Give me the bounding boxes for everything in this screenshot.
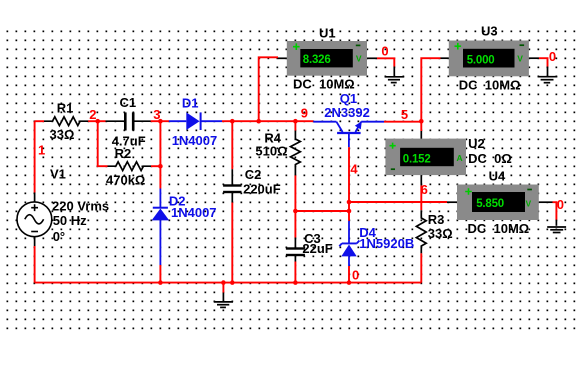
svg-text:6: 6: [421, 182, 428, 197]
svg-text:C1: C1: [120, 95, 137, 110]
svg-text:2: 2: [89, 107, 96, 122]
svg-text:1N4007: 1N4007: [172, 133, 218, 148]
svg-text:DC 10MΩ: DC 10MΩ: [293, 77, 355, 92]
svg-text:A: A: [457, 153, 463, 163]
svg-text:C2: C2: [245, 167, 262, 182]
svg-text:DC 0Ω: DC 0Ω: [468, 151, 512, 166]
svg-text:5: 5: [401, 107, 408, 122]
svg-text:DC 10MΩ: DC 10MΩ: [459, 77, 521, 92]
svg-text:220 Vrms: 220 Vrms: [52, 198, 109, 213]
svg-text:22uF: 22uF: [302, 241, 332, 256]
svg-text:9: 9: [301, 105, 308, 120]
svg-text:0.152: 0.152: [403, 153, 431, 165]
svg-text:R1: R1: [57, 101, 74, 116]
svg-text:8.326: 8.326: [303, 54, 331, 66]
svg-text:R2: R2: [115, 146, 132, 161]
svg-text:1N5920B: 1N5920B: [359, 236, 414, 251]
svg-text:0: 0: [381, 43, 388, 58]
svg-text:0: 0: [352, 267, 359, 282]
svg-text:33Ω: 33Ω: [428, 226, 453, 241]
svg-text:V1: V1: [50, 166, 66, 181]
svg-text:4: 4: [350, 162, 358, 177]
svg-text:220uF: 220uF: [243, 181, 281, 196]
svg-text:R3: R3: [428, 212, 445, 227]
svg-text:33Ω: 33Ω: [50, 127, 75, 142]
svg-text:3: 3: [153, 107, 160, 122]
svg-text:U4: U4: [489, 169, 506, 184]
svg-text:0: 0: [557, 197, 564, 212]
svg-text:V: V: [356, 54, 362, 64]
svg-text:U3: U3: [481, 24, 498, 39]
svg-text:50 Hz: 50 Hz: [53, 213, 87, 228]
svg-text:1N4007: 1N4007: [171, 205, 217, 220]
svg-text:0°: 0°: [53, 229, 65, 244]
svg-text:DC 10MΩ: DC 10MΩ: [468, 221, 530, 236]
svg-text:470kΩ: 470kΩ: [106, 172, 145, 187]
svg-text:5.850: 5.850: [476, 198, 504, 210]
svg-text:5.000: 5.000: [467, 54, 495, 66]
svg-text:2N3392: 2N3392: [324, 105, 370, 120]
svg-text:0: 0: [549, 49, 556, 64]
svg-text:V: V: [517, 54, 523, 64]
svg-text:U2: U2: [468, 136, 485, 151]
svg-text:U1: U1: [319, 25, 336, 40]
svg-text:1: 1: [38, 142, 45, 157]
svg-text:D1: D1: [182, 95, 199, 110]
svg-text:Q1: Q1: [340, 91, 357, 106]
svg-text:510Ω: 510Ω: [255, 144, 287, 159]
svg-text:V: V: [526, 199, 532, 209]
